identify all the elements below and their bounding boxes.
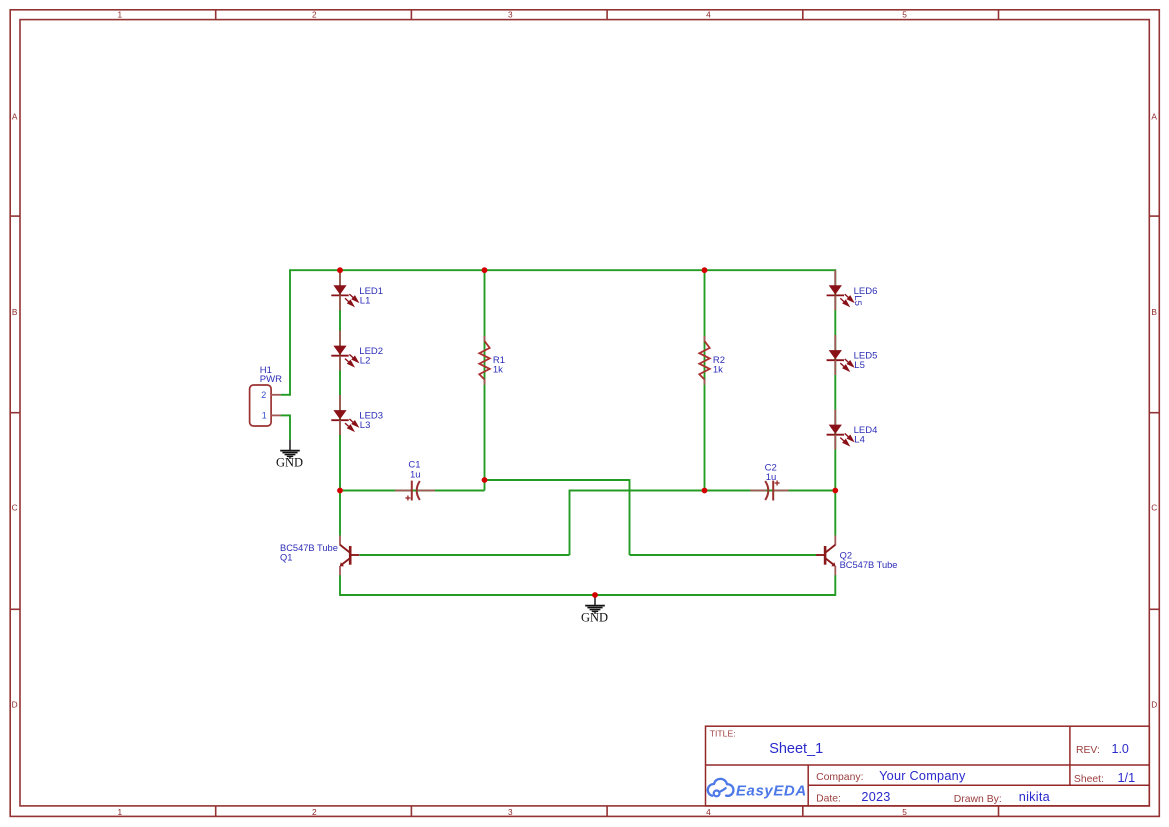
value L5 (rotated) — [852, 295, 863, 306]
wire VCC top rail — [290, 269, 835, 271]
wire right LED column — [834, 269, 836, 490]
svg-text:B: B — [12, 307, 18, 317]
value 1k (R2) — [713, 365, 723, 376]
junction node bottom rail GND tap — [592, 592, 598, 598]
value BC547B Tube (Q1) — [280, 543, 338, 553]
svg-text:2: 2 — [312, 9, 317, 19]
value BC547B Tube (Q2) — [840, 560, 898, 570]
LED LED1 — [331, 270, 358, 310]
wire Q2 collector — [834, 491, 836, 536]
value L1 — [360, 295, 371, 306]
value 1u (C2) — [766, 472, 777, 483]
svg-text:D: D — [1151, 700, 1157, 710]
label Q2 — [840, 551, 852, 561]
svg-text:REV:: REV: — [1076, 745, 1100, 756]
junction node top rail / LED1 — [337, 267, 343, 273]
svg-text:L5: L5 — [852, 295, 863, 306]
label R2 — [713, 355, 725, 366]
junction node C1 left / Q1 collector — [337, 488, 343, 494]
wire node C1 row (left) — [340, 480, 485, 491]
wire left LED column — [339, 270, 341, 490]
svg-text:Drawn By:: Drawn By: — [954, 794, 1002, 805]
transistor Q1 (mirrored NPN) — [340, 536, 360, 576]
svg-text:TITLE:: TITLE: — [710, 729, 736, 739]
wire Q1 emitter to bottom rail — [339, 575, 341, 596]
pin number 2 (H1) — [261, 390, 266, 400]
svg-text:Your Company: Your Company — [879, 769, 966, 783]
svg-text:1: 1 — [117, 9, 122, 19]
svg-text:2: 2 — [312, 807, 317, 817]
value L2 — [360, 355, 371, 366]
connector H1 PWR — [250, 385, 281, 426]
value L3 — [360, 420, 371, 431]
svg-text:1.0: 1.0 — [1112, 742, 1129, 756]
svg-text:L3: L3 — [360, 420, 371, 431]
svg-text:EasyEDA: EasyEDA — [736, 783, 807, 800]
svg-text:L2: L2 — [360, 355, 371, 366]
svg-text:3: 3 — [508, 807, 513, 817]
svg-text:Q1: Q1 — [280, 552, 292, 562]
value 1k (R1) — [493, 365, 503, 376]
junction node top rail / R2 — [702, 267, 708, 273]
label Q1 — [280, 552, 292, 562]
svg-text:1/1: 1/1 — [1118, 771, 1136, 785]
transistor Q2 (NPN) — [816, 536, 836, 576]
wire H1 pin2 to top rail — [281, 269, 290, 395]
junction node R1 bottom — [482, 477, 488, 483]
svg-text:L1: L1 — [360, 295, 371, 306]
svg-text:4: 4 — [706, 807, 711, 817]
label LED3 — [359, 410, 383, 421]
LED LED5 — [827, 335, 854, 375]
wire bottom ground rail — [340, 594, 835, 596]
svg-text:C: C — [12, 503, 18, 513]
wire C2 node to Q1 base — [360, 490, 570, 555]
svg-text:L5: L5 — [854, 360, 865, 371]
svg-text:3: 3 — [508, 9, 513, 19]
svg-text:1k: 1k — [493, 365, 503, 376]
svg-text:Sheet:: Sheet: — [1074, 774, 1104, 785]
value 1u (C1) — [410, 470, 421, 481]
wire R2 branch — [704, 270, 706, 490]
svg-text:Sheet_1: Sheet_1 — [769, 741, 823, 757]
label LED6 — [854, 286, 878, 297]
LED LED6 — [827, 270, 854, 310]
svg-text:1: 1 — [262, 410, 267, 420]
svg-text:1u: 1u — [766, 472, 777, 483]
label LED2 — [359, 346, 383, 357]
label LED5 — [854, 351, 878, 362]
wire Q1 collector — [339, 491, 341, 536]
wire Q2 emitter to bottom rail — [834, 575, 836, 596]
junction node top rail / R1 — [482, 267, 488, 273]
EasyEDA logo — [708, 779, 807, 800]
svg-text:nikita: nikita — [1019, 790, 1051, 804]
label R1 — [493, 355, 505, 366]
resistor R1 — [479, 336, 489, 385]
svg-text:2: 2 — [261, 390, 266, 400]
wire H1 pin1 to ground — [281, 415, 290, 441]
svg-text:PWR: PWR — [260, 374, 282, 385]
svg-text:1: 1 — [117, 807, 122, 817]
svg-text:Date:: Date: — [816, 794, 841, 805]
wire node C2 row (right) — [570, 490, 836, 492]
svg-text:5: 5 — [902, 9, 907, 19]
LED LED3 — [331, 395, 358, 435]
svg-text:C: C — [1151, 503, 1157, 513]
label LED1 — [359, 286, 383, 297]
svg-text:5: 5 — [902, 807, 907, 817]
pin number 1 (H1) — [262, 410, 267, 420]
label H1 — [260, 365, 272, 376]
value L4 — [854, 435, 865, 446]
svg-text:Company:: Company: — [816, 772, 863, 783]
title block — [706, 726, 1150, 806]
label C2 — [765, 462, 777, 473]
svg-text:D: D — [12, 700, 18, 710]
svg-text:L4: L4 — [854, 435, 865, 446]
LED LED2 — [331, 331, 358, 371]
ground GND (left, under H1) — [276, 440, 303, 470]
wire R1 bottom to Q2 base — [485, 479, 817, 555]
capacitor C1 — [395, 481, 435, 501]
value PWR — [260, 374, 282, 385]
svg-text:B: B — [1151, 307, 1157, 317]
svg-text:4: 4 — [706, 9, 711, 19]
svg-text:A: A — [1151, 111, 1157, 121]
svg-text:1u: 1u — [410, 470, 421, 481]
resistor R2 — [699, 336, 709, 385]
junction node R2 bottom — [702, 488, 708, 494]
junction node C2 right / Q2 collector — [832, 488, 838, 494]
capacitor C2 — [750, 481, 788, 501]
svg-text:2023: 2023 — [861, 790, 890, 804]
wire R1 branch — [484, 270, 486, 480]
svg-text:BC547B Tube: BC547B Tube — [840, 560, 898, 570]
ground GND (bottom center) — [581, 595, 608, 625]
svg-text:A: A — [12, 111, 18, 121]
svg-text:1k: 1k — [713, 365, 723, 376]
LED LED4 — [827, 410, 854, 450]
label C1 — [408, 460, 420, 471]
label LED4 — [854, 425, 878, 436]
value L5 — [854, 360, 865, 371]
